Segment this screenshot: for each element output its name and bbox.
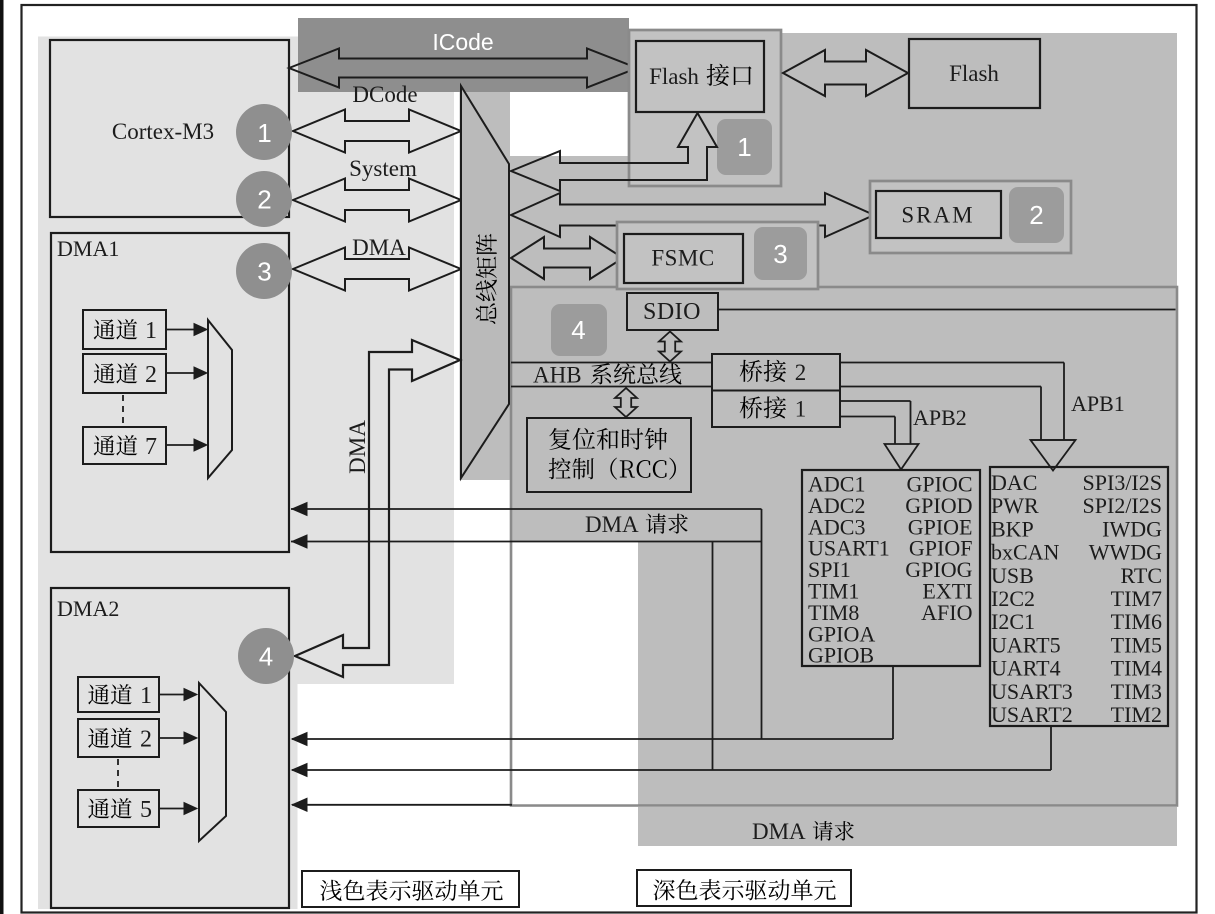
label bus matrix (zongxian juzhen) [476,234,497,324]
svg-text:1: 1 [145,318,157,344]
svg-text:PWR: PWR [991,493,1039,518]
arrow DMA2 channel5 to mux [159,808,186,810]
svg-text:3: 3 [773,239,787,269]
wire DMA2 request line3 [292,804,512,806]
arrow channel2 to mux [166,372,196,374]
box DMA2 channel 2 [78,719,159,757]
svg-text:I2C2: I2C2 [991,586,1035,611]
svg-text:GPIOB: GPIOB [808,643,874,668]
box SRAM [876,191,1001,238]
arrow bus matrix to SRAM [511,193,874,237]
gray outer box SRAM unit 2 [870,181,1071,253]
square 1 [717,119,772,175]
arrow ICode [289,49,637,88]
box SDIO [627,293,718,330]
APB1 hollow arrowhead [1031,440,1076,471]
svg-text:4: 4 [571,315,585,345]
svg-text:3: 3 [257,257,271,287]
svg-text:TIM4: TIM4 [1111,656,1162,681]
box APB2 peripherals [802,470,980,666]
svg-text:TIM7: TIM7 [1111,586,1162,611]
arrow request into DMA1 line1 [292,503,307,516]
svg-text:1: 1 [795,397,807,422]
block DMA2 [51,588,289,908]
svg-text:IWDG: IWDG [1102,516,1162,541]
svg-text:USART3: USART3 [991,679,1073,704]
svg-text:BKP: BKP [991,516,1034,541]
wire DMA2 request line2 [292,769,1051,771]
arrow System [293,179,461,222]
arrow SDIO-AHB vertical [659,332,681,362]
box DMA1 channel 2 [83,354,166,393]
DMA2 mux trapezoid [199,683,226,841]
arrow DMA bus [293,248,461,291]
legend light color box [302,871,519,907]
svg-text:2: 2 [795,360,807,385]
box RCC reset and clock control [527,418,691,492]
bus matrix parallelogram [461,86,509,478]
svg-text:Flash: Flash [949,61,999,86]
AHB system bus band [511,362,712,364]
box Flash interface [636,41,764,112]
svg-text:Cortex-M3: Cortex-M3 [112,119,214,144]
svg-text:SRAM: SRAM [901,203,974,228]
wire APB1 box down [1050,726,1052,770]
dashed line DMA2 channels [117,759,119,788]
square 4 [551,304,607,356]
APB2 hollow arrowhead [885,444,919,470]
wire junction vertical x713 [712,542,714,771]
box bridge 2 [712,354,840,391]
svg-text:DMA2: DMA2 [57,596,119,621]
arrow channel7 to mux [166,444,196,446]
arrow bus matrix to FSMC [511,237,623,279]
box DMA1 channel 1 [83,310,166,349]
arrow request into DMA1 line2 [292,535,307,548]
svg-text:WWDG: WWDG [1089,540,1162,565]
gray outer box Flash interface unit 1 [629,30,781,186]
legend dark color box [637,870,851,906]
svg-text:1: 1 [140,683,152,709]
box DMA1 channel 7 [83,427,166,464]
svg-text:APB1: APB1 [1071,391,1125,416]
arrow DMA2 channel2 to mux [159,737,186,739]
box APB1 peripherals [990,467,1168,726]
svg-text:1: 1 [737,132,751,162]
svg-text:DCode: DCode [352,82,417,107]
svg-text:2: 2 [257,185,271,215]
page edge bar left [0,0,4,914]
svg-text:DAC: DAC [991,470,1037,495]
L-arrow bus matrix to Flash interface [511,113,717,191]
white notch under ICode bar [510,92,629,156]
circle 1 [236,104,292,160]
square 3 [754,227,807,280]
svg-text:Flash: Flash [649,64,699,89]
svg-text:TIM6: TIM6 [1111,609,1162,634]
arrow DMA2 channel1 to mux [159,694,186,696]
svg-text:4: 4 [259,642,273,672]
arrow AHB-RCC vertical [615,388,637,417]
label DMA vertical [345,420,370,474]
wire bridge2 to APB1 arrow [840,362,1064,364]
dark band behind bus matrix [460,88,511,480]
wire DMA2 request line1 [292,738,893,740]
AHB dark panel [511,287,1177,806]
arrow Flash interface to Flash [783,50,908,96]
svg-text:bxCAN: bxCAN [991,540,1060,565]
svg-text:UART4: UART4 [991,656,1061,681]
svg-text:USART2: USART2 [991,702,1073,727]
svg-text:SDIO: SDIO [643,299,701,325]
svg-text:2: 2 [140,727,152,753]
dark panel top right (driven units) [510,33,1177,287]
svg-text:System: System [349,156,417,181]
circle 3 [236,243,292,299]
square 2 [1009,187,1064,243]
box FSMC [624,234,743,283]
svg-text:UART5: UART5 [991,632,1061,657]
box DMA2 channel 5 [78,790,159,827]
svg-text:TIM2: TIM2 [1111,702,1162,727]
gray outer box FSMC unit 3 [617,222,818,289]
svg-text:ICode: ICode [432,29,493,55]
svg-text:DMA1: DMA1 [57,236,119,261]
wire APB2 box down [892,666,894,739]
wire SDIO to right edge [718,309,1176,311]
svg-text:SPI3/I2S: SPI3/I2S [1083,470,1162,495]
big hollow arrow DMA2 - bus matrix [295,340,460,677]
svg-text:SPI2/I2S: SPI2/I2S [1083,493,1162,518]
svg-text:DMA: DMA [352,235,406,260]
svg-text:5: 5 [140,797,152,823]
block Flash [909,39,1040,108]
svg-text:7: 7 [145,434,157,460]
light panel (driving units) [38,37,454,910]
svg-text:DMA: DMA [752,819,806,844]
DMA1 mux trapezoid [208,320,232,478]
svg-text:RTC: RTC [1121,563,1162,588]
svg-text:USB: USB [991,563,1034,588]
ICode bar [298,18,629,92]
svg-text:AFIO: AFIO [921,600,972,625]
svg-text:DMA: DMA [345,420,370,474]
svg-text:DMA: DMA [585,512,639,537]
circle 2 [236,171,292,227]
wire junction vertical x762 [761,509,763,739]
box DMA2 channel 1 [78,677,159,712]
dashed line DMA1 channels [122,395,124,425]
svg-text:1: 1 [257,118,271,148]
box bridge 1 [712,391,840,428]
block Cortex-M3 [50,40,289,217]
svg-text:TIM5: TIM5 [1111,632,1162,657]
svg-text:FSMC: FSMC [651,246,714,271]
arrow DCode [293,110,461,153]
block DMA1 [51,233,289,552]
wire bridge1 to APB2 arrow [840,400,911,402]
bottom DMA-request dark band [638,807,1177,846]
upper DMA request band [291,508,762,510]
svg-text:2: 2 [1029,200,1043,230]
circle 4 [238,628,294,684]
svg-text:I2C1: I2C1 [991,609,1035,634]
svg-text:AHB: AHB [533,363,582,388]
white notch bottom-left of AHB panel [512,542,638,804]
svg-text:TIM3: TIM3 [1111,679,1162,704]
svg-text:2: 2 [145,362,157,388]
svg-text:APB2: APB2 [913,405,967,430]
arrow channel1 to mux [166,329,196,331]
